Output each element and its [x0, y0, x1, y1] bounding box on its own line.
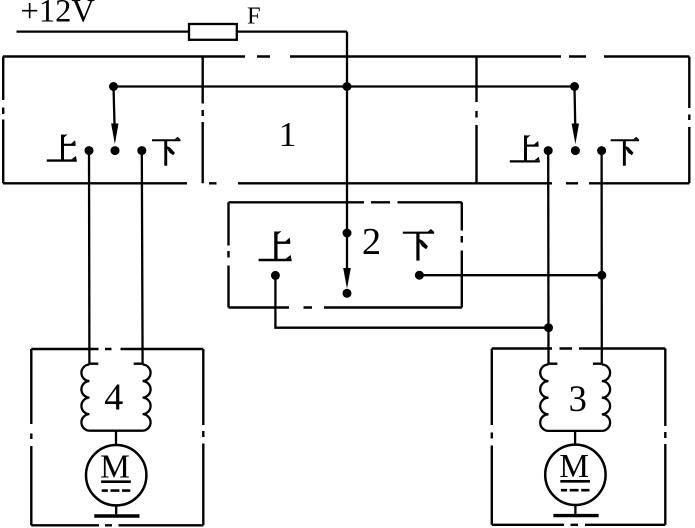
wire: S2 下 contact right to coil-3 right lead — [419, 274, 601, 276]
ground (right) — [553, 514, 598, 517]
wire: motor (right) to ground — [574, 505, 576, 514]
ground (left) — [94, 514, 139, 517]
unit 1 internal divider (right, dash-dot) — [475, 57, 477, 184]
wire: +12V feed to fuse — [17, 30, 190, 32]
wire: vertical drop from +12V rail into unit 1 — [346, 32, 348, 87]
label 下 (switch 1 right) — [611, 137, 640, 166]
wire: motor (left) to ground — [115, 505, 117, 514]
svg-text:4: 4 — [104, 377, 123, 419]
switch S1-left contact 上 — [85, 146, 94, 155]
wire: feed bus across unit 1 — [114, 85, 575, 87]
coil 3 bottom connector — [549, 430, 602, 432]
label 下 (switch 2) — [403, 229, 434, 261]
svg-text:M: M — [559, 448, 589, 485]
wire: coil 4 tap to motor — [115, 431, 117, 446]
switch S1-right pole contact — [571, 146, 580, 155]
label 上 (switch 1 left) — [47, 134, 77, 161]
switch S2 neutral contact — [343, 289, 352, 298]
label 上 (switch 1 right) — [510, 135, 540, 162]
node: +12V tap junction — [343, 82, 352, 91]
switch S1-left movable contact arrow — [114, 87, 115, 125]
wire: S2 上 contact down and right to coil-3 left lead — [275, 275, 548, 327]
unit 1 internal divider (left, dash-dot) — [201, 57, 203, 184]
svg-text:+12V: +12V — [21, 0, 96, 30]
svg-text:F: F — [247, 3, 261, 30]
switch S2 movable contact arrow — [346, 233, 348, 269]
svg-text:2: 2 — [362, 221, 381, 263]
motor unit 3 enclosure (dash-dot box) — [492, 349, 666, 525]
motor unit 4 enclosure (dash-dot box) — [31, 349, 203, 525]
switch S1-right movable contact arrow — [573, 87, 576, 125]
switch S2 contact 下 — [415, 271, 424, 280]
svg-text:M: M — [100, 449, 130, 486]
wire: S1-left 上 contact down to coil 4 — [88, 151, 91, 364]
fuse F — [189, 24, 237, 40]
motor M (left) — [86, 445, 146, 505]
motor M (right) — [545, 445, 605, 505]
coil 4 right winding — [134, 364, 151, 431]
svg-text:1: 1 — [279, 115, 297, 154]
switch S1-right contact 上 — [544, 146, 553, 155]
switch S2 contact 上 — [271, 271, 280, 280]
node: switch S2 pivot — [343, 229, 352, 238]
coil 4 left winding — [81, 364, 98, 431]
wire: fuse to corner — [237, 30, 347, 32]
switch unit 2 enclosure (dash-dot box) — [229, 202, 462, 307]
switch S1-left contact 下 — [137, 146, 146, 155]
node: junction on coil-3 right lead — [597, 271, 606, 280]
node: junction on coil-3 left lead — [544, 323, 553, 332]
wire: S1-right 下 contact down to coil 3 — [600, 151, 603, 364]
wire: coil 3 tap to motor — [574, 431, 576, 445]
switch S1-left pole contact — [111, 146, 120, 155]
switch unit 1 enclosure (dash-dot box) — [3, 57, 689, 184]
wire: S1-right 上 contact down to coil 3 — [547, 151, 550, 364]
coil 3 right winding — [593, 364, 610, 431]
label 下 (switch 1 left) — [152, 137, 181, 166]
switch S1-right contact 下 — [597, 146, 606, 155]
node: left switch pivot — [109, 82, 118, 91]
coil 4 bottom connector — [89, 430, 142, 432]
wire: S1-left 下 contact down to coil 4 — [141, 151, 144, 364]
label 上 (switch 2) — [259, 231, 292, 261]
wire: +12V tap down into unit 2 — [346, 87, 348, 234]
coil 3 left winding — [540, 364, 557, 431]
node: right switch pivot — [570, 82, 579, 91]
svg-text:3: 3 — [569, 378, 587, 419]
